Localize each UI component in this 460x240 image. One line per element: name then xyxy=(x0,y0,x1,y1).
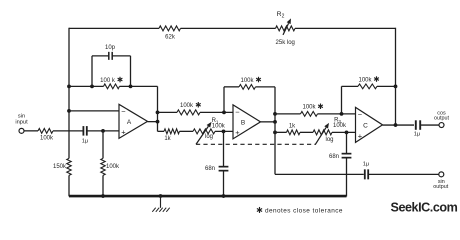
wire R3 to C noninverting input xyxy=(332,131,356,133)
junction 100k shunt on rail xyxy=(101,194,105,198)
terminal cos output xyxy=(439,123,444,128)
svg-text:SeekIC.com: SeekIC.com xyxy=(391,201,458,215)
wire 1u to sin terminal xyxy=(368,173,439,175)
svg-text:log: log xyxy=(325,137,333,143)
wire 100k shunt to ground rail xyxy=(102,175,104,196)
resistor 1k B-C xyxy=(287,130,301,135)
wire top rail middle segment xyxy=(181,27,276,29)
wire sin input to 100k xyxy=(24,130,38,132)
svg-text:+: + xyxy=(121,128,126,137)
capacitor 1u input xyxy=(83,126,86,136)
junction ground symbol on rail xyxy=(159,194,163,198)
svg-text:−: − xyxy=(358,110,363,119)
wire B noninverting node down to 68n xyxy=(223,131,225,166)
R2 wiper arrow xyxy=(283,18,291,34)
wire 68n first to ground rail xyxy=(223,171,225,197)
asterisk B feedback xyxy=(256,77,261,83)
node branch to 1k B-C xyxy=(273,130,277,134)
asterisk 100k A-B xyxy=(196,102,201,108)
svg-text:100k: 100k xyxy=(180,103,194,109)
resistor 100k feedback B xyxy=(239,84,256,89)
svg-text:100 k: 100 k xyxy=(100,78,116,84)
wire A feedback left segment xyxy=(69,85,104,87)
wire B feedback right leg xyxy=(274,87,276,122)
node branch to C inverting xyxy=(273,112,277,116)
wire 68n second to ground rail right end xyxy=(346,158,348,197)
resistor 100k shunt xyxy=(101,158,105,175)
asterisk note xyxy=(257,207,262,213)
wire 1u to cos terminal xyxy=(420,124,439,126)
svg-text:A: A xyxy=(127,119,132,126)
capacitor 1u cos output xyxy=(416,120,420,130)
R1 wiper arrow xyxy=(196,122,212,145)
wire B feedback top right xyxy=(256,86,276,88)
wire 10p right leg xyxy=(130,56,132,87)
op-amp B xyxy=(233,105,261,139)
node B feedback left junction xyxy=(222,110,226,114)
wire 10p top right xyxy=(112,55,130,57)
wire B feedback left leg xyxy=(223,87,225,113)
resistor 100k series A-B xyxy=(177,110,200,115)
potentiometer R2 track xyxy=(276,26,296,31)
wire left vertical to 150k xyxy=(68,111,70,159)
node A feedback left junction xyxy=(67,84,71,88)
svg-text:B: B xyxy=(241,120,245,127)
resistor 1k A-B xyxy=(164,129,180,134)
svg-text:150k: 150k xyxy=(53,164,67,170)
svg-text:+: + xyxy=(235,128,240,137)
capacitor 68n first xyxy=(219,167,229,171)
asterisk C feedback xyxy=(374,76,379,82)
wire top rail left segment xyxy=(69,27,159,29)
wire down to C output xyxy=(395,86,397,125)
node C feedback right junction xyxy=(394,84,398,88)
wire C noninverting node down to 68n xyxy=(346,132,348,153)
svg-text:output: output xyxy=(433,184,448,190)
R3 wiper arrow xyxy=(315,123,329,145)
junction 68n-1 on rail xyxy=(222,194,226,198)
svg-text:68n: 68n xyxy=(205,166,215,172)
wire B out to series 100k xyxy=(275,113,301,115)
svg-text:68n: 68n xyxy=(329,154,339,160)
wire B out down to sin branch xyxy=(274,122,276,175)
wire C output to 1u cap xyxy=(383,124,415,126)
wire down to 100k shunt xyxy=(102,131,104,159)
wire C feedback to output node xyxy=(377,85,396,87)
resistor 100k feedback C xyxy=(358,84,377,89)
svg-text:−: − xyxy=(121,107,126,116)
svg-text:100k: 100k xyxy=(240,78,254,84)
wire A out to series 100k xyxy=(158,111,178,113)
ground symbol xyxy=(152,196,169,212)
svg-text:1μ: 1μ xyxy=(363,161,369,167)
svg-text:−: − xyxy=(235,108,240,117)
wire A feedback right segment xyxy=(120,85,158,87)
node C feedback left junction xyxy=(340,112,344,116)
wire 100k to 1u cap xyxy=(53,130,83,132)
svg-text:100k: 100k xyxy=(358,77,372,83)
terminal sin input xyxy=(19,128,24,133)
svg-text:+: + xyxy=(358,132,363,141)
wire to A inverting input xyxy=(69,110,119,112)
node branch to B inverting xyxy=(156,110,160,114)
wire 1k to R3 xyxy=(300,131,313,133)
svg-text:62k: 62k xyxy=(165,34,176,40)
svg-text:100k: 100k xyxy=(302,105,316,111)
resistor 150k xyxy=(67,158,71,175)
wire B output to node xyxy=(261,121,276,123)
wire 150k to ground rail xyxy=(68,175,70,196)
node 10p right junction xyxy=(129,84,133,88)
svg-text:100k: 100k xyxy=(212,124,226,130)
svg-text:100k: 100k xyxy=(106,164,120,170)
wire 10p top left xyxy=(92,55,109,57)
asterisk 100k B-C xyxy=(318,104,323,110)
op-amp C xyxy=(356,107,383,142)
node A inverting branch junction xyxy=(67,109,71,113)
wire 10p left leg xyxy=(91,56,93,87)
wire series 100k to C inverting input xyxy=(318,113,356,115)
node 68n-1 top junction xyxy=(222,129,226,133)
wire R1 to B noninverting input xyxy=(215,130,233,132)
node C output junction xyxy=(394,123,398,127)
potentiometer R3 track xyxy=(313,130,332,135)
svg-text:100k: 100k xyxy=(40,136,54,142)
capacitor 10p xyxy=(109,52,112,60)
wire from top rail down to C feedback xyxy=(395,28,397,87)
wire sin output branch xyxy=(275,173,364,175)
node B output junction xyxy=(273,120,277,124)
wire A output vertical xyxy=(157,86,159,131)
resistor 100k series B-C xyxy=(301,111,318,116)
terminal sin output xyxy=(439,172,444,177)
wire top rail right segment xyxy=(295,27,396,29)
ground rail xyxy=(69,195,347,198)
resistor 100k feedback A xyxy=(104,84,120,89)
svg-text:output: output xyxy=(434,115,449,121)
capacitor 68n second xyxy=(342,154,352,158)
wire 1k to R1 xyxy=(180,130,194,132)
svg-text:R2: R2 xyxy=(277,11,285,20)
wire 1u cap to A noninverting input xyxy=(87,130,119,132)
node 68n-2 top junction xyxy=(345,130,349,134)
wire B feedback top left xyxy=(224,86,239,88)
svg-text:1k: 1k xyxy=(164,136,171,142)
node A output junction xyxy=(156,120,160,124)
svg-text:1μ: 1μ xyxy=(414,132,420,138)
wire series 100k to B inverting input xyxy=(200,111,233,113)
node 100k shunt junction xyxy=(101,129,105,133)
svg-text:input: input xyxy=(15,119,28,125)
wire A output to node xyxy=(148,121,158,123)
wire B out to 1k xyxy=(275,131,287,133)
svg-text:C: C xyxy=(363,123,368,130)
wire C feedback left leg xyxy=(341,86,343,114)
wire left vertical from top rail xyxy=(68,28,70,111)
svg-text:10p: 10p xyxy=(105,45,116,51)
capacitor 1u sin output xyxy=(365,169,368,179)
svg-text:1μ: 1μ xyxy=(82,138,88,144)
dashed gang line R1-R3 xyxy=(196,143,316,145)
op-amp A xyxy=(119,104,148,138)
potentiometer R1 track xyxy=(193,129,215,134)
resistor 100k input xyxy=(38,128,53,133)
svg-text:100k: 100k xyxy=(333,123,347,129)
wire A out to 1k xyxy=(158,130,165,132)
asterisk A feedback xyxy=(118,77,123,83)
svg-text:25k log: 25k log xyxy=(276,40,295,46)
svg-text:log: log xyxy=(205,134,213,140)
svg-text:1k: 1k xyxy=(289,123,296,129)
node 10p left junction xyxy=(90,84,94,88)
svg-text:denotes close tolerance: denotes close tolerance xyxy=(265,208,343,215)
wire C feedback top left xyxy=(342,85,359,87)
resistor 62k xyxy=(159,26,181,31)
